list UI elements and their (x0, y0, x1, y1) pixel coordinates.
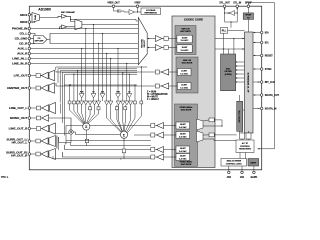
svg-text:BIT_CLK: BIT_CLK (265, 81, 275, 84)
DAC E amp (157, 147, 164, 153)
wire CD_GND (31, 38, 34, 40)
fan wires into summer R (107, 104, 142, 133)
SURR_OUT_L amp (41, 138, 48, 145)
svg-text:HP_OUT_L: HP_OUT_L (12, 141, 28, 145)
wire PHONE_IN (31, 28, 139, 30)
wire record to ADC L (147, 38, 177, 40)
svg-text:Σ-Δ DAC: Σ-Δ DAC (180, 72, 188, 75)
mixer mono bus (64, 84, 137, 86)
node vref (137, 11, 138, 12)
node mono bus (70, 84, 71, 85)
svg-text:Σ-Δ DAC: Σ-Δ DAC (180, 86, 188, 89)
wire DAC F (62, 152, 176, 157)
mic preamp amp A2 (62, 25, 68, 29)
DAC D white box (176, 132, 190, 139)
xtal buffer (228, 11, 235, 16)
svg-text:DAC: DAC (226, 68, 231, 71)
DAC variable-rate sub-block (176, 57, 198, 93)
svg-text:MIC1: MIC1 (20, 13, 27, 17)
codec core right small boxes (209, 118, 214, 137)
svg-text:EAPD: EAPD (251, 176, 258, 179)
DAC C chain: mute box (151, 124, 155, 128)
voltage ref buffer (129, 10, 135, 15)
svg-text:20-BIT: 20-BIT (181, 71, 188, 73)
wire ADC L to aclink (215, 38, 245, 40)
right pin labels (265, 31, 280, 110)
svg-text:SDATA_IN: SDATA_IN (265, 107, 277, 110)
SURR_OUT_L mute box (36, 139, 40, 143)
svg-text:FILTER: FILTER (225, 71, 232, 73)
mixer attenuator labels (80, 91, 131, 94)
svg-text:ID1: ID1 (265, 41, 269, 44)
LINE_OUT_L mux (49, 103, 55, 114)
svg-text:RESET: RESET (265, 54, 274, 57)
top pin circles (112, 5, 249, 8)
svg-text:AD1980: AD1980 (38, 7, 51, 11)
wire DAC E (65, 145, 176, 150)
ADC L gain box (164, 37, 168, 41)
SURR_OUT_R mux (49, 149, 56, 160)
svg-text:20-BIT: 20-BIT (180, 124, 187, 126)
wire mono bus into summers (56, 130, 151, 159)
CENTER_OUT mute box (36, 86, 40, 90)
wire DAC C (66, 125, 176, 127)
CENTER_OUT mux (49, 83, 55, 93)
DAC L chain: mute box (155, 70, 159, 74)
attenuator output stubs (82, 98, 130, 107)
svg-text:Σ-Δ DAC: Σ-Δ DAC (179, 135, 187, 138)
top pin labels (107, 2, 252, 4)
mic select mux (32, 13, 40, 23)
wire vref components (121, 8, 141, 13)
fan wires into summer L (70, 104, 99, 124)
DAC E white box (176, 146, 190, 153)
wire LINE_OUT_L (31, 107, 50, 109)
mix mute box under summer L (85, 139, 88, 142)
DAC R white box (177, 83, 191, 90)
DAC F chain: mute box (151, 155, 155, 159)
wire amp A1 to mux (67, 16, 75, 21)
node box wires (221, 125, 222, 126)
DAC F amp (157, 154, 164, 160)
LINE_OUT_L mute box (36, 106, 40, 110)
svg-text:CD_R: CD_R (19, 42, 28, 46)
registers block wires (240, 95, 245, 133)
svg-text:LFE_OUT: LFE_OUT (14, 74, 28, 78)
bottom pin circles (228, 171, 256, 174)
mic preamp amp A1 (62, 14, 68, 18)
wire xtal pins (225, 8, 238, 28)
svg-text:PLL: PLL (222, 30, 227, 33)
svg-text:REGISTERS: REGISTERS (239, 149, 251, 151)
svg-text:REFERENCE: REFERENCE (145, 13, 158, 15)
svg-text:CD_GND: CD_GND (15, 37, 29, 41)
wire DAC R (56, 83, 177, 86)
wire MONO_OUT (31, 118, 72, 130)
svg-text:20-BIT: 20-BIT (181, 85, 188, 87)
SURR_OUT_R mute box (36, 152, 40, 156)
wire MIC1 to mux (31, 14, 33, 16)
svg-text:ADC RATE: ADC RATE (180, 30, 191, 33)
LINE_OUT_R mux (49, 123, 55, 134)
codec core output trapezoids (197, 119, 204, 130)
ADC L chain amp (156, 36, 163, 42)
svg-text:FIXED 48kHz: FIXED 48kHz (180, 106, 193, 109)
svg-text:EAPD: EAPD (250, 162, 256, 165)
legend (146, 91, 168, 101)
LINE_OUT_R mute box (36, 127, 40, 131)
DAC F white box (176, 154, 190, 161)
summer L (83, 123, 90, 130)
wire ADC R to aclink (215, 48, 245, 50)
CENTER_OUT amp (41, 85, 48, 92)
svg-text:16-BIT: 16-BIT (182, 47, 189, 49)
svg-text:DAC RATE: DAC RATE (181, 109, 192, 112)
svg-text:CENTER_OUT: CENTER_OUT (7, 86, 28, 90)
arrowhead spdif loop (258, 148, 260, 150)
voltage ref transistor (114, 8, 122, 13)
wires small boxes onward (214, 120, 237, 141)
LFE_OUT mute box (36, 74, 40, 78)
svg-text:AUX_L: AUX_L (17, 47, 27, 51)
DAC fixed-rate sub-block (175, 104, 198, 166)
svg-text:AC ’97: AC ’97 (242, 142, 249, 145)
wire AUX_R (31, 53, 139, 55)
CD diff amp (34, 36, 48, 44)
wire LINE_OUT_R (31, 128, 50, 130)
DAC L amp (161, 69, 168, 75)
svg-text:LINE_OUT_L: LINE_OUT_L (9, 106, 28, 110)
wire SURR_OUT_R (31, 153, 49, 155)
DAC C amp (157, 123, 164, 129)
svg-text:TPC 1.: TPC 1. (1, 176, 9, 179)
chip outline AD1980 (29, 6, 261, 170)
dac filter right arrows (236, 62, 245, 82)
LFE_OUT amp (41, 72, 48, 79)
fifo box B (246, 133, 251, 139)
svg-text:(L/R/M): (L/R/M) (225, 74, 232, 76)
LINE_OUT_R amp (42, 125, 49, 132)
AC-link interface bar (245, 32, 254, 133)
on-chip registers vertical block (237, 101, 243, 131)
ADC right white box (177, 45, 192, 53)
svg-text:VREF_OUT: VREF_OUT (107, 2, 120, 4)
svg-text:SDATA_OUT: SDATA_OUT (265, 94, 280, 97)
svg-text:DIFF AMP: DIFF AMP (35, 40, 45, 43)
analog mixer control logic box (221, 159, 247, 167)
svg-text:VREF: VREF (134, 2, 141, 4)
svg-text:LINE_IN_R: LINE_IN_R (12, 62, 28, 66)
DAC D amp (157, 132, 164, 138)
SURR_OUT_R amp (41, 151, 48, 158)
DAC R amp (161, 83, 168, 89)
svg-text:JS1: JS1 (240, 176, 245, 179)
wire dac filter feed (229, 39, 234, 55)
svg-text:FIXED 48kHz: FIXED 48kHz (180, 161, 193, 164)
wire SURR_OUT_L (31, 140, 49, 142)
wire DAC D (134, 134, 176, 136)
svg-text:MIC PREAMP: MIC PREAMP (61, 11, 76, 14)
svg-text:CONTROL LOGIC: CONTROL LOGIC (226, 164, 242, 166)
wire spdif outer loop (248, 3, 274, 149)
svg-text:XTL_IN: XTL_IN (233, 2, 241, 4)
svg-text:ANALOG MIXER: ANALOG MIXER (226, 160, 241, 163)
svg-text:Σ-Δ DAC: Σ-Δ DAC (179, 150, 187, 153)
svg-text:Z = HIGH Z: Z = HIGH Z (147, 99, 159, 101)
MONO_OUT amp (42, 115, 49, 122)
ADC rate sub-block (175, 26, 196, 55)
svg-text:LINE_OUT_R: LINE_OUT_R (9, 127, 29, 131)
svg-text:XTL_OUT: XTL_OUT (219, 2, 230, 4)
svg-text:CD_L: CD_L (19, 32, 27, 36)
ADC R gain box (164, 46, 168, 50)
svg-text:20-BIT: 20-BIT (180, 156, 187, 158)
wire pll down (224, 31, 245, 55)
wire mux to preamps (40, 16, 62, 28)
mic gain select mux (75, 19, 82, 29)
svg-text:JS0: JS0 (227, 176, 232, 179)
svg-text:Σ-Δ ADC: Σ-Δ ADC (181, 49, 189, 52)
svg-text:CODEC CORE: CODEC CORE (184, 18, 203, 22)
EAPD block (248, 159, 259, 167)
vertical input drop wires (70, 25, 142, 102)
svg-text:LINE_IN_L: LINE_IN_L (12, 57, 27, 61)
DAC E chain: mute box (151, 148, 155, 152)
svg-text:AC ’97 INTERFACE: AC ’97 INTERFACE (247, 72, 250, 92)
summer R (120, 131, 127, 138)
codec core block (172, 16, 215, 168)
svg-text:VAR L/R: VAR L/R (181, 27, 190, 30)
wire CD amp out (47, 34, 138, 44)
svg-text:20-BIT: 20-BIT (180, 134, 187, 136)
bottom pin labels (227, 176, 258, 179)
svg-text:16-BIT: 16-BIT (182, 37, 189, 39)
left pin labels (6, 13, 28, 158)
SURR_OUT_L mux (49, 136, 56, 147)
svg-text:S/PDIF CTRL: S/PDIF CTRL (239, 109, 241, 122)
PLL block (220, 28, 227, 34)
wire amp A2 to mux (67, 26, 75, 28)
mixer mute boxes row (89, 107, 127, 110)
wire DAC L (56, 71, 177, 72)
node xtal (224, 12, 225, 13)
svg-text:SELECT: SELECT (144, 39, 146, 48)
wire MIC2 to mux (31, 21, 35, 22)
svg-text:PHONE_IN: PHONE_IN (12, 27, 27, 31)
left pin circles (28, 13, 31, 155)
svg-text:ID0: ID0 (265, 31, 269, 34)
wire spdif pin to tx (247, 8, 249, 33)
AC97 control registers box (236, 140, 254, 153)
ADC R chain amp (156, 45, 163, 51)
svg-text:VOLTAGE: VOLTAGE (146, 9, 156, 12)
wire AUX_L (31, 48, 139, 50)
svg-text:MIC2: MIC2 (20, 20, 27, 24)
DAC R chain: mute box (155, 84, 159, 88)
wire mic mux output (82, 24, 138, 26)
node mic split (70, 19, 71, 20)
bottom horizontal routing wires (53, 136, 151, 159)
fifo box A (240, 133, 245, 139)
wire record to ADC R (147, 47, 177, 49)
wire CENTER out (31, 87, 50, 89)
DAC L white box (177, 69, 191, 76)
mixer attenuators lower row (68, 101, 143, 105)
wires ac97 ctrl regs (240, 131, 249, 159)
right pin wires (253, 33, 260, 109)
svg-text:SYNC: SYNC (265, 68, 272, 71)
svg-text:Σ-Δ DAC: Σ-Δ DAC (179, 126, 187, 129)
wire CD_R (31, 43, 36, 45)
node mic2 junction (34, 21, 35, 22)
svg-text:VAR L/R: VAR L/R (183, 59, 192, 62)
MONO_OUT mute box (36, 116, 40, 120)
svg-text:SPDIF: SPDIF (245, 15, 252, 17)
DAC D chain: mute box (151, 133, 155, 137)
bottom pin wires (229, 166, 254, 171)
svg-text:Σ-Δ DAC: Σ-Δ DAC (179, 157, 187, 160)
ADC left white box (177, 35, 192, 43)
record selector mux (138, 18, 147, 65)
LFE_OUT mux (49, 70, 55, 80)
junction dots on input lines (69, 24, 142, 86)
svg-text:DAC RATE: DAC RATE (182, 62, 193, 65)
svg-text:DAC RATE: DAC RATE (181, 163, 192, 166)
LINE_OUT_L amp (42, 105, 49, 112)
DAC filter block (221, 54, 236, 91)
mono sum node (69, 130, 73, 134)
voltage reference box (141, 8, 161, 15)
wires trapezoid to boxes (203, 120, 222, 139)
svg-text:AUX_R: AUX_R (17, 52, 28, 56)
svg-text:MONO_OUT: MONO_OUT (10, 116, 28, 120)
wire mic direct to record (71, 19, 139, 21)
nested corner wires to output muxes (56, 67, 147, 136)
node adc cross (233, 38, 234, 39)
wire LINE_IN_R (31, 63, 139, 65)
SPDIF TX block (243, 13, 253, 20)
wire hp feeds (57, 104, 66, 151)
right pin circles (260, 31, 263, 110)
node phone tap (59, 28, 60, 29)
wire LINE_IN_L (31, 58, 139, 60)
svg-text:Σ-Δ ADC: Σ-Δ ADC (181, 39, 189, 42)
svg-text:20-BIT: 20-BIT (180, 148, 187, 150)
DAC C white box (176, 122, 190, 129)
mixer attenuators upper row (79, 94, 132, 98)
wire LFE out (31, 75, 50, 77)
svg-text:20dB: 20dB (35, 14, 37, 19)
wire CD_L (31, 34, 36, 36)
svg-text:HP_OUT_R: HP_OUT_R (11, 154, 28, 158)
svg-text:CONTROL: CONTROL (240, 146, 251, 148)
